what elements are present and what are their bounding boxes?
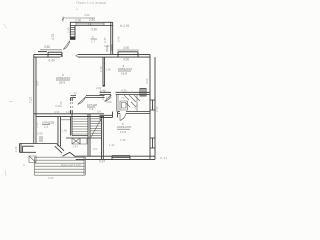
- svg-text:КОМНАТА: КОМНАТА: [56, 76, 70, 80]
- svg-text:4.70: 4.70: [51, 34, 55, 40]
- svg-text:2.81: 2.81: [89, 18, 95, 22]
- svg-text:1.42: 1.42: [109, 143, 115, 147]
- svg-text:0.98: 0.98: [37, 132, 43, 136]
- storeroom door dashes: [40, 136, 42, 142]
- svg-text:1.06: 1.06: [59, 101, 63, 107]
- bay door leaf: [63, 41, 70, 50]
- bay right wall: [111, 22, 113, 54]
- svg-text:17-0: 17-0: [120, 130, 126, 134]
- left wall: [34, 54, 36, 143]
- svg-text:2.7: 2.7: [91, 40, 95, 44]
- stair right flight treads: [90, 116, 102, 135]
- svg-text:1.20: 1.20: [106, 96, 112, 100]
- window sill line: [40, 49, 62, 51]
- room17 door leaf: [120, 114, 126, 121]
- stair shaft walls: [70, 22, 75, 40]
- kitchen door dashes: [71, 102, 73, 108]
- scan smudges: [3, 24, 7, 28]
- svg-text:Масштаб 1:100: Масштаб 1:100: [61, 163, 81, 167]
- svg-text:КОМНАТА: КОМНАТА: [117, 125, 131, 129]
- svg-text:1.96: 1.96: [62, 129, 68, 133]
- right wall: [150, 54, 155, 159]
- bay window 1: [76, 22, 89, 25]
- corridor top wall: [34, 114, 104, 117]
- svg-text:3.07: 3.07: [36, 80, 40, 86]
- bath top wall: [100, 92, 151, 94]
- top-left window: [48, 52, 62, 57]
- svg-text:1.35: 1.35: [35, 122, 39, 128]
- stair left flight treads: [72, 119, 88, 134]
- corridor shelf line: [61, 119, 71, 121]
- vestibule wall: [88, 138, 90, 156]
- svg-text:КОМНАТА: КОМНАТА: [118, 67, 132, 71]
- top opening flares: [60, 54, 78, 57]
- bottom wall: [76, 156, 155, 159]
- right wall window lower: [150, 138, 156, 148]
- sill board: [38, 51, 47, 53]
- closet box: [72, 138, 80, 144]
- svg-text:0.80: 0.80: [106, 100, 112, 104]
- svg-text:4.93: 4.93: [121, 89, 127, 93]
- svg-text:2.0: 2.0: [121, 96, 125, 100]
- right wall window upper: [150, 100, 156, 110]
- svg-text:29-9: 29-9: [59, 81, 65, 85]
- svg-text:1.25: 1.25: [120, 138, 126, 142]
- svg-text:1.90: 1.90: [106, 68, 112, 72]
- svg-text:4.90: 4.90: [123, 46, 129, 50]
- closet box 2: [80, 138, 87, 144]
- wall room17 left: [102, 117, 104, 159]
- svg-text:3.90: 3.90: [91, 28, 97, 32]
- left bay bottom: [20, 151, 37, 153]
- bath bottom wall left: [100, 115, 113, 117]
- left bay window: [20, 144, 23, 153]
- svg-text:2.45: 2.45: [103, 37, 107, 43]
- stair bottom: [66, 136, 102, 139]
- svg-text:7.07: 7.07: [29, 97, 33, 103]
- bath divider 2: [136, 95, 138, 112]
- bath divider 1: [117, 95, 119, 112]
- dim extension ticks: [107, 45, 112, 53]
- svg-text:4.50: 4.50: [145, 78, 149, 84]
- svg-text:0.9: 0.9: [97, 110, 101, 114]
- porch step box: [29, 156, 36, 163]
- svg-text:1.0: 1.0: [66, 110, 70, 114]
- bay top wall: [70, 22, 112, 25]
- svg-text:3.80: 3.80: [44, 45, 50, 49]
- top-right window: [118, 52, 138, 57]
- corridor double door: [63, 152, 76, 157]
- svg-text:2.45: 2.45: [66, 27, 70, 33]
- svg-text:4.90: 4.90: [84, 13, 90, 17]
- svg-text:0.90: 0.90: [101, 94, 105, 100]
- bath fixture box: [120, 101, 128, 110]
- exterior stairs: [35, 157, 86, 175]
- chimney box: [140, 89, 146, 97]
- svg-text:2.1: 2.1: [44, 125, 49, 129]
- svg-text:Н. 2.1: Н. 2.1: [160, 156, 168, 160]
- svg-text:0.9: 0.9: [93, 147, 97, 151]
- svg-text:5.97: 5.97: [99, 160, 105, 164]
- window sill right: [117, 49, 139, 51]
- bath bottom wall right: [118, 112, 151, 114]
- svg-text:План 1-го этажа: План 1-го этажа: [76, 0, 107, 5]
- corridor thick wall: [58, 117, 61, 147]
- svg-text:2.70: 2.70: [99, 66, 103, 72]
- interior wall room5 left: [103, 57, 105, 86]
- wall end cap: [103, 85, 105, 87]
- bay window 2: [91, 22, 105, 25]
- svg-text:Н-2.91: Н-2.91: [120, 24, 130, 28]
- svg-text:4.63: 4.63: [54, 110, 60, 114]
- svg-text:2.40: 2.40: [117, 36, 121, 42]
- stair shaft treads: [70, 28, 75, 37]
- svg-text:4.50: 4.50: [123, 58, 129, 62]
- bath hatch: [124, 95, 140, 107]
- svg-text:2.40: 2.40: [155, 106, 159, 112]
- svg-text:1.00: 1.00: [14, 146, 18, 152]
- stair mid rail: [88, 114, 90, 138]
- svg-text:6.40: 6.40: [49, 59, 55, 63]
- dimension tick left of bay: [62, 17, 65, 22]
- stair arrow: [91, 119, 101, 137]
- bottom window: [112, 156, 130, 160]
- kitchen top wall: [71, 96, 105, 98]
- svg-text:15-8: 15-8: [121, 72, 127, 76]
- svg-text:2.90: 2.90: [75, 19, 81, 23]
- top dimension line: [65, 17, 95, 19]
- svg-text:1.47: 1.47: [73, 145, 79, 149]
- svg-text:1.40: 1.40: [100, 89, 106, 93]
- bath step stubs: [113, 112, 118, 118]
- kitchen door leaf: [78, 97, 87, 105]
- bath door leaf top: [105, 95, 112, 102]
- stair left wall: [71, 114, 72, 136]
- bottom-left wall: [20, 144, 57, 147]
- kitchen left wall: [71, 98, 73, 114]
- svg-text:3.20: 3.20: [48, 176, 54, 180]
- diagonal wall: [55, 144, 64, 154]
- svg-text:7.3: 7.3: [89, 107, 94, 111]
- main top wall: [34, 54, 150, 57]
- stair pier: [70, 37, 75, 40]
